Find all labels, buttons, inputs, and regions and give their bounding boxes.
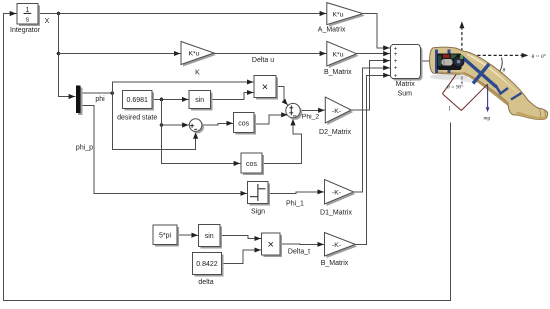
thigh blue strap 2	[447, 49, 450, 73]
blue cross strap	[473, 64, 489, 84]
silver motor cylinder	[442, 59, 453, 66]
svg-text:θ: θ	[503, 68, 506, 74]
block Sign	[248, 182, 271, 216]
wire 5*pi to sin2	[177, 234, 198, 237]
constant 5*pi	[153, 225, 179, 247]
wire constant down to sum plus input	[162, 99, 189, 125]
wire A_Matrix to Matrix Sum input 1	[363, 14, 389, 48]
block sin 2	[199, 225, 223, 249]
knee joint disc	[453, 56, 464, 67]
bone highlight	[467, 54, 519, 95]
red winding	[443, 55, 450, 58]
thigh blue strap 1	[435, 49, 438, 73]
soft photo shadow under thigh	[430, 74, 468, 80]
svg-text:+: +	[394, 74, 398, 80]
wire branch to gain K	[59, 53, 181, 55]
wire product to big sum top	[276, 87, 288, 105]
svg-text:Sum: Sum	[398, 91, 413, 98]
green board right edge	[460, 55, 463, 59]
wire phi down to sum minus input	[112, 93, 195, 149]
motor cutaway window	[437, 54, 462, 70]
svg-text:phi: phi	[95, 96, 105, 103]
constant 0.6981 desired state	[117, 91, 157, 122]
leg body silhouette	[430, 47, 548, 120]
blue V strap	[496, 85, 509, 94]
svg-text:0.6981: 0.6981	[126, 97, 148, 104]
mg vector arrow	[487, 84, 489, 108]
wire Delta u from K to B_Matrix	[214, 53, 326, 55]
block Matrix Sum	[390, 45, 422, 98]
node junction to gain K	[57, 52, 61, 56]
wire phi_p from demux to Sign	[81, 106, 247, 194]
gain A_Matrix	[318, 3, 365, 34]
svg-text:D1_Matrix: D1_Matrix	[320, 210, 352, 217]
theta arc arrow	[498, 58, 502, 74]
green pcb top right	[451, 55, 457, 59]
node constant junction 2	[160, 123, 164, 127]
wire D1_Matrix to Matrix Sum input 4	[354, 68, 390, 192]
svg-text:A_Matrix: A_Matrix	[318, 26, 346, 33]
wire D2_Matrix to Matrix Sum input 3	[351, 61, 389, 110]
svg-text:Delta u: Delta u	[252, 57, 274, 64]
svg-text:+: +	[394, 59, 398, 65]
svg-text:Matrix: Matrix	[396, 81, 416, 88]
integrator block 1/s	[10, 4, 41, 35]
svg-text:delta: delta	[198, 279, 213, 286]
sum junction small	[189, 119, 204, 134]
wire constant 0.6981 to sin	[152, 98, 188, 100]
plant illustration: prosthetic leg image	[430, 21, 548, 121]
gain K	[181, 42, 216, 77]
svg-text:cos: cos	[238, 121, 249, 128]
node constant junction	[160, 98, 164, 102]
svg-text:K*u: K*u	[189, 51, 200, 58]
wire Phi_2 big sum to D2_Matrix	[300, 109, 324, 111]
svg-text:θ = 0°: θ = 0°	[532, 53, 547, 60]
svg-text:-K-: -K-	[332, 242, 341, 249]
block cos 2	[241, 153, 264, 175]
wire sum to cos1	[202, 123, 233, 125]
svg-text:Delta_t: Delta_t	[288, 249, 310, 256]
gain D1_Matrix	[320, 180, 355, 217]
svg-text:X: X	[45, 18, 50, 25]
gain D2_Matrix	[319, 97, 353, 136]
svg-text:B_Matrix: B_Matrix	[324, 69, 352, 76]
blue ankle strap	[511, 93, 522, 100]
svg-text:D2_Matrix: D2_Matrix	[319, 129, 351, 136]
wire Delta_t product2 to B_Matrix2	[280, 243, 324, 245]
wire constant down to cos2	[162, 125, 240, 163]
product block X 2	[262, 233, 283, 257]
svg-text:desired state: desired state	[117, 115, 157, 122]
dashed horizontal theta=0 axis	[477, 54, 523, 56]
svg-text:5*pi: 5*pi	[159, 233, 172, 240]
svg-text:mg: mg	[484, 116, 491, 122]
svg-text:+: +	[394, 66, 398, 72]
wire sin to product bottom input	[211, 93, 254, 100]
svg-text:×: ×	[262, 82, 268, 94]
product block X	[254, 76, 278, 100]
wire B_Matrix2 to Matrix Sum input 5	[355, 75, 389, 244]
leg shading lower edge	[437, 72, 508, 107]
block cos 1	[234, 113, 257, 135]
wire Phi_1 Sign to D1_Matrix	[268, 192, 324, 194]
toe line	[539, 109, 545, 117]
wire cos2 to big sum bottom	[262, 119, 302, 163]
wire B_Matrix to Matrix Sum input 2	[357, 53, 390, 55]
wire 0.8422 to product2 bottom input	[222, 250, 261, 264]
node junction on X wire	[57, 12, 61, 16]
svg-text:l: l	[449, 107, 451, 113]
svg-text:-K-: -K-	[332, 108, 341, 115]
svg-text:0.8422: 0.8422	[196, 261, 218, 268]
wire sin2 to product2 top input	[220, 236, 261, 239]
demux	[76, 86, 83, 116]
dashed vertical reference axis	[461, 27, 463, 84]
node phi junction	[111, 91, 115, 95]
svg-text:B_Matrix: B_Matrix	[321, 260, 349, 267]
svg-text:K*u: K*u	[333, 11, 344, 18]
gain B_Matrix (K*u)	[324, 41, 359, 76]
svg-text:phi_p: phi_p	[76, 145, 93, 152]
blue shin strap main	[462, 57, 497, 88]
sum junction Phi_2	[286, 103, 302, 119]
svg-text:sin: sin	[205, 233, 214, 240]
wire Matrix Sum output to plant image	[420, 60, 429, 62]
maroon angle lines	[442, 75, 487, 111]
svg-text:+: +	[394, 52, 398, 58]
svg-text:-K-: -K-	[332, 190, 341, 197]
svg-text:Integrator: Integrator	[10, 27, 41, 34]
green pcb left	[438, 56, 442, 67]
wire cos1 to big sum	[254, 115, 287, 124]
svg-text:Phi_2: Phi_2	[302, 114, 320, 121]
svg-text:×: ×	[267, 239, 273, 251]
wire phi up to product top input	[112, 82, 253, 93]
svg-text:sin: sin	[195, 97, 204, 104]
wire feedback from plant bottom loop	[4, 14, 451, 301]
constant 0.8422 delta	[193, 253, 224, 287]
gain B_Matrix 2	[321, 233, 358, 267]
wire branch down from X to demux	[59, 14, 75, 97]
svg-text:K*u: K*u	[333, 51, 344, 58]
svg-text:Sign: Sign	[251, 209, 265, 216]
wire integrator output X to A_Matrix	[38, 13, 326, 15]
svg-text:Phi_1: Phi_1	[286, 201, 304, 208]
block sin	[189, 91, 213, 111]
wire phi from demux	[81, 92, 113, 94]
foot shading	[516, 112, 547, 120]
svg-text:θ = 90°: θ = 90°	[447, 84, 464, 91]
svg-text:cos: cos	[246, 161, 257, 168]
svg-text:s: s	[26, 17, 30, 24]
svg-text:K: K	[195, 70, 200, 77]
